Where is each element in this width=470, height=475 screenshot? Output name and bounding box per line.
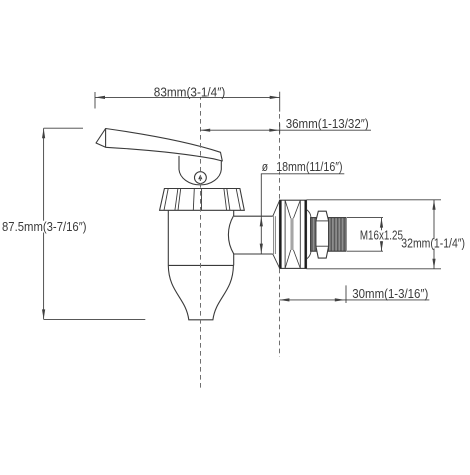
hex nut <box>316 211 329 258</box>
svg-text:32mm(1-1/4″): 32mm(1-1/4″) <box>401 237 465 251</box>
mounting plane dashed line <box>279 114 281 200</box>
dim M16x1.25 <box>347 217 383 219</box>
svg-text:ø: ø <box>262 159 268 174</box>
knurled bonnet cap <box>160 189 245 211</box>
cone transition to flange <box>273 200 280 216</box>
svg-text:87.5mm(3-7/16″): 87.5mm(3-7/16″) <box>2 220 87 234</box>
faucet body <box>167 210 169 265</box>
lever handle <box>96 129 222 162</box>
dim dia 18mm leader <box>260 174 262 254</box>
threaded shank M16 <box>311 218 346 252</box>
gasket washer <box>273 216 275 254</box>
svg-text:36mm(1-13/32″): 36mm(1-13/32″) <box>286 117 369 131</box>
centerline of faucet body (dashed) <box>200 95 202 388</box>
outlet pipe <box>234 215 273 217</box>
lever pivot body <box>179 156 221 185</box>
dim 87.5mm left <box>43 128 45 319</box>
washer bulge behind flange <box>307 210 312 260</box>
spout nozzle <box>168 265 233 319</box>
cap knurl lines <box>164 189 241 211</box>
flange groove cone lines <box>285 200 300 268</box>
mounting flange <box>280 200 307 268</box>
pivot screw circle <box>195 172 207 184</box>
dim 36mm <box>200 129 371 131</box>
screw mark <box>198 175 202 180</box>
svg-text:30mm(1-3/16″): 30mm(1-3/16″) <box>352 287 428 301</box>
dim 30mm bottom <box>279 299 429 301</box>
svg-text:83mm(3-1/4″): 83mm(3-1/4″) <box>154 85 226 99</box>
dim 83mm top <box>94 92 96 109</box>
dim 32mm right <box>307 199 442 201</box>
svg-text:M16x1.25: M16x1.25 <box>360 229 403 243</box>
svg-text:18mm(11/16″): 18mm(11/16″) <box>276 160 342 174</box>
